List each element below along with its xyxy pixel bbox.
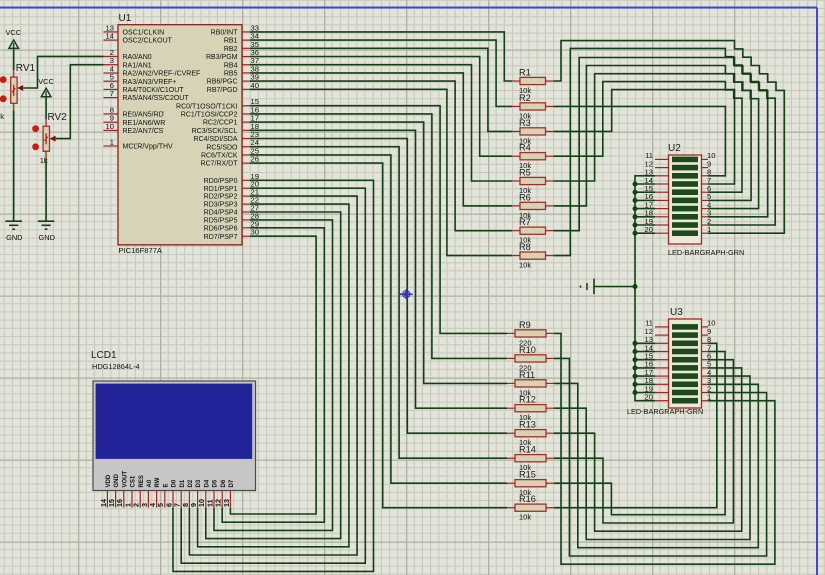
svg-text:RC1/T1OSI/CCP2: RC1/T1OSI/CCP2 — [181, 112, 238, 119]
svg-text:RD1/PSP1: RD1/PSP1 — [204, 186, 238, 193]
wire RD2 to LCD D2 — [189, 196, 357, 555]
wire RC1 to R10 — [250, 114, 507, 359]
wire RV1 to GND — [13, 110, 15, 221]
svg-text:RE0/AN5/RD: RE0/AN5/RD — [123, 112, 164, 119]
ground symbol — [38, 221, 55, 242]
wire RD7 to LCD D7 — [230, 236, 316, 514]
resistor R6 — [512, 192, 554, 220]
wire RB3 to R4 — [250, 57, 512, 157]
svg-text:R16: R16 — [519, 494, 536, 504]
wire RD5 to LCD D5 — [214, 220, 333, 531]
sheet border top — [0, 7, 817, 9]
svg-text:RB5: RB5 — [224, 71, 238, 78]
svg-text:R1: R1 — [519, 68, 531, 78]
wire U3 pin 15 to bus — [635, 359, 655, 361]
wire R14 to U3 pin 6 — [554, 360, 733, 523]
resistor R15 — [507, 470, 554, 498]
svg-text:RV2: RV2 — [48, 112, 68, 123]
svg-text:RA5/AN4/SS/C2OUT: RA5/AN4/SS/C2OUT — [123, 95, 190, 102]
potentiometer RV1 — [0, 63, 36, 121]
svg-text:RW: RW — [155, 477, 161, 487]
svg-text:D0: D0 — [172, 479, 178, 487]
svg-text:RD4/PSP4: RD4/PSP4 — [204, 210, 238, 217]
wire U2 pin 14 to bus — [635, 183, 655, 185]
svg-text:30: 30 — [251, 228, 259, 237]
svg-text:R13: R13 — [519, 420, 536, 430]
wire RB5 to R6 — [250, 73, 512, 206]
svg-text:R8: R8 — [519, 242, 531, 252]
wire RC0 to R9 — [250, 106, 507, 334]
svg-text:R5: R5 — [519, 168, 531, 178]
svg-text:D2: D2 — [188, 479, 194, 487]
LED bargraph U3 body — [627, 307, 715, 416]
svg-text:RB3/PGM: RB3/PGM — [206, 54, 238, 61]
ground symbol — [5, 221, 22, 242]
svg-text:1: 1 — [707, 225, 711, 234]
power VCC — [38, 77, 54, 97]
svg-text:RD2/PSP2: RD2/PSP2 — [204, 194, 238, 201]
wire R5 to U2 pin 5 — [554, 74, 752, 201]
svg-text:D5: D5 — [213, 479, 219, 487]
wire RV2 wiper to RA1 — [56, 65, 104, 139]
wire RD0 to LCD D0 — [173, 180, 374, 571]
svg-text:RB4: RB4 — [224, 62, 238, 69]
svg-text:R12: R12 — [519, 395, 536, 405]
svg-text:RC5/SDO: RC5/SDO — [206, 144, 238, 151]
wire RB4 to R5 — [250, 65, 512, 181]
wire R4 to U2 pin 6 — [554, 82, 743, 193]
wire RD1 to LCD D1 — [181, 188, 365, 563]
svg-text:D7: D7 — [229, 479, 235, 487]
microcontroller U1 PIC16F877A — [104, 13, 259, 255]
wire U2 pin 17 to bus — [635, 208, 655, 210]
wire R2 to U2 pin 8 — [554, 106, 726, 175]
svg-text:RC3/SCK/SCL: RC3/SCK/SCL — [192, 128, 238, 135]
svg-text:VDD: VDD — [106, 474, 112, 487]
svg-text:R9: R9 — [519, 320, 531, 330]
resistor R9 — [507, 320, 554, 348]
wire R7 to U2 pin 3 — [554, 58, 768, 231]
wire R3 to U2 pin 7 — [554, 90, 735, 184]
wire U3 pin 19 to bus — [635, 392, 655, 394]
sheet border right — [816, 8, 818, 575]
svg-text:RC6/TX/CK: RC6/TX/CK — [201, 153, 238, 160]
svg-text:RES: RES — [139, 475, 145, 487]
svg-text:E: E — [163, 483, 169, 487]
svg-text:MCLR/Vpp/THV: MCLR/Vpp/THV — [123, 144, 174, 151]
wire U2 pin 15 to bus — [635, 191, 655, 193]
svg-text:R11: R11 — [519, 370, 535, 380]
wire RC6 to R15 — [250, 155, 507, 483]
svg-text:U2: U2 — [668, 143, 681, 154]
potentiometer RV2 — [32, 112, 67, 165]
wire U2 left pins to ground bus — [635, 176, 655, 401]
wire VCC to RV1 — [13, 49, 15, 70]
wire RC7 to R16 — [250, 163, 507, 508]
wire RC5 to R14 — [250, 147, 507, 459]
svg-text:RC7/RX/DT: RC7/RX/DT — [201, 161, 239, 168]
LCD LCD1 HDG12864L-4 — [91, 350, 256, 508]
svg-text:R3: R3 — [519, 118, 531, 128]
svg-text:PIC16F877A: PIC16F877A — [119, 246, 163, 255]
resistor R1 — [512, 68, 554, 96]
svg-text:OSC2/CLKOUT: OSC2/CLKOUT — [123, 38, 173, 45]
svg-text:D4: D4 — [204, 479, 210, 487]
resistor R8 — [512, 242, 554, 270]
svg-text:R2: R2 — [519, 93, 531, 103]
power VCC — [6, 28, 22, 48]
resistor R4 — [512, 143, 554, 171]
svg-text:R4: R4 — [519, 143, 531, 153]
svg-text:1: 1 — [110, 138, 114, 147]
LED bargraph U2 body — [645, 143, 745, 257]
svg-text:RD3/PSP3: RD3/PSP3 — [204, 202, 238, 209]
wire R15 to U3 pin 7 — [554, 352, 725, 515]
resistor R3 — [512, 118, 554, 145]
svg-text:RE2/AN7/CS: RE2/AN7/CS — [123, 128, 164, 135]
svg-text:LED-BARGRAPH-GRN: LED-BARGRAPH-GRN — [627, 407, 703, 416]
wire RV1 wiper to RA0 — [23, 56, 103, 88]
wire RB0 to R1 — [250, 32, 512, 81]
svg-text:1: 1 — [707, 393, 711, 402]
wire RD6 to LCD D6 — [222, 228, 324, 522]
svg-text:R7: R7 — [519, 217, 531, 227]
svg-text:GND: GND — [39, 233, 55, 242]
wire R11 to U3 pin 3 — [554, 383, 758, 547]
svg-text:10k: 10k — [519, 513, 531, 522]
wire RB7 to R8 — [250, 89, 512, 255]
svg-text:RD6/PSP6: RD6/PSP6 — [204, 225, 238, 232]
wire U2 pin 19 to bus — [635, 224, 655, 226]
svg-text:D6: D6 — [221, 479, 227, 487]
wire R9 to U3 pin 1 — [554, 333, 775, 564]
wire U3 pin 14 to bus — [635, 351, 655, 353]
svg-text:OSC1/CLKIN: OSC1/CLKIN — [123, 30, 165, 37]
wire RC2 to R11 — [250, 122, 507, 383]
wire U2 pin 20 to bus — [635, 232, 655, 234]
resistor R13 — [507, 420, 554, 448]
svg-text:RB1: RB1 — [224, 38, 238, 45]
wire RD3 to LCD D3 — [198, 204, 349, 547]
svg-text:RB7/PGD: RB7/PGD — [207, 87, 238, 94]
svg-text:R10: R10 — [519, 345, 536, 355]
wire R12 to U3 pin 4 — [554, 376, 750, 539]
wire RB1 to R2 — [250, 40, 512, 106]
svg-text:RA2/AN2/VREF-/CVREF: RA2/AN2/VREF-/CVREF — [123, 71, 201, 78]
svg-text:U3: U3 — [670, 307, 683, 318]
svg-text:VCC: VCC — [38, 77, 54, 86]
wire R6 to U2 pin 4 — [554, 66, 759, 209]
wire R1 to U2 pin 1 — [554, 41, 785, 234]
origin marker — [400, 289, 413, 299]
wire VCC to RV2 — [45, 97, 47, 119]
wire RB6 to R7 — [250, 81, 512, 231]
svg-text:RD5/PSP5: RD5/PSP5 — [204, 218, 238, 225]
svg-text:RC4/SDI/SDA: RC4/SDI/SDA — [194, 136, 238, 143]
resistor R10 — [507, 345, 554, 373]
wire U3 pin 13 to bus — [635, 342, 655, 344]
wire U3 pin 18 to bus — [635, 383, 655, 385]
wire U3 pin 17 to bus — [635, 375, 655, 377]
wire R10 to U3 pin 2 — [554, 358, 767, 556]
wire R13 to U3 pin 5 — [554, 368, 742, 531]
svg-text:RC2/CCP1: RC2/CCP1 — [203, 120, 238, 127]
svg-text:R15: R15 — [519, 470, 536, 480]
svg-text:RD7/PSP7: RD7/PSP7 — [204, 234, 238, 241]
ground symbol near bargraphs — [581, 279, 638, 295]
svg-text:D3: D3 — [196, 479, 202, 487]
svg-text:RC0/T1OSO/T1CKI: RC0/T1OSO/T1CKI — [176, 103, 238, 110]
wire RC3 to R12 — [250, 130, 507, 408]
svg-text:7: 7 — [110, 89, 114, 98]
svg-text:RA1/AN1: RA1/AN1 — [123, 62, 152, 69]
svg-text:RA0/AN0: RA0/AN0 — [123, 54, 152, 61]
svg-text:RE1/AN6/WR: RE1/AN6/WR — [123, 120, 166, 127]
svg-text:1k: 1k — [0, 112, 4, 121]
wire U3 pin 16 to bus — [635, 367, 655, 369]
svg-text:RB6/PGC: RB6/PGC — [207, 79, 238, 86]
svg-text:D1: D1 — [180, 479, 186, 487]
resistor R16 — [507, 494, 554, 522]
svg-text:RA4/T0CKI/C1OUT: RA4/T0CKI/C1OUT — [123, 87, 185, 94]
wire R8 to U2 pin 2 — [554, 48, 776, 255]
resistor R2 — [512, 93, 554, 121]
svg-text:RD0/PSP0: RD0/PSP0 — [204, 178, 238, 185]
svg-text:RB0/INT: RB0/INT — [211, 30, 239, 37]
wire U2 pin 18 to bus — [635, 216, 655, 218]
svg-text:R6: R6 — [519, 192, 531, 202]
svg-text:R14: R14 — [519, 445, 536, 455]
svg-text:U1: U1 — [119, 13, 132, 24]
wire R16 to U3 pin 8 — [554, 343, 717, 507]
svg-text:RB2: RB2 — [224, 46, 238, 53]
svg-text:LED-BARGRAPH-GRN: LED-BARGRAPH-GRN — [668, 248, 744, 257]
svg-text:13: 13 — [222, 499, 231, 507]
svg-text:10k: 10k — [519, 261, 531, 270]
resistor R7 — [512, 217, 554, 245]
svg-text:26: 26 — [251, 155, 259, 164]
svg-text:10: 10 — [106, 122, 114, 131]
svg-text:RV1: RV1 — [16, 63, 36, 74]
resistor R11 — [507, 370, 554, 398]
svg-text:CS1: CS1 — [131, 475, 137, 487]
svg-text:LCD1: LCD1 — [91, 350, 117, 361]
svg-text:A0: A0 — [147, 479, 153, 487]
svg-text:RA3/AN3/VREF+: RA3/AN3/VREF+ — [123, 79, 177, 86]
svg-text:HDG12864L-4: HDG12864L-4 — [92, 362, 140, 371]
svg-text:GND: GND — [114, 474, 120, 488]
wire U2 pin 16 to bus — [635, 199, 655, 201]
resistor R5 — [512, 168, 554, 196]
svg-text:VCC: VCC — [6, 28, 22, 37]
svg-text:VOUT: VOUT — [122, 470, 128, 487]
svg-text:14: 14 — [106, 32, 114, 41]
svg-text:GND: GND — [6, 233, 22, 242]
svg-text:40: 40 — [251, 81, 259, 90]
wire RB2 to R3 — [250, 48, 512, 131]
wire RV2 to GND — [45, 158, 47, 221]
resistor R14 — [507, 445, 554, 473]
wire RC4 to R13 — [250, 139, 507, 434]
wire RD4 to LCD D4 — [206, 212, 341, 539]
resistor R12 — [507, 395, 554, 423]
